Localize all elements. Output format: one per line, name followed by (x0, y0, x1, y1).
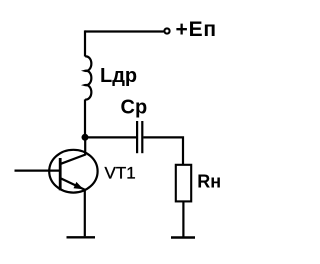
capacitor Cp plates (136, 121, 138, 153)
collector wire (vertical from junction + diagonal to base bar) (61, 137, 85, 164)
svg-text:Rн: Rн (197, 172, 221, 192)
transistor VT1 circle (49, 150, 97, 193)
wire from top corner down to inductor (84, 30, 86, 56)
base wire (15, 170, 60, 172)
emitter wire vertical to ground (84, 190, 86, 237)
ground (emitter) (67, 236, 96, 238)
emitter wire (diagonal from base bar) (61, 178, 85, 189)
wire junction to capacitor left plate (85, 136, 136, 138)
inductor Lдр (choke, 3 right-bulging arcs) (85, 56, 91, 99)
svg-text:+Eп: +Eп (176, 18, 217, 41)
svg-text:Cp: Cp (121, 96, 148, 118)
junction node (collector / L / C) (82, 134, 89, 141)
emitter arrowhead (74, 182, 84, 189)
supply terminal (open circle) (164, 28, 169, 33)
base bar (59, 158, 62, 190)
resistor Rн body (176, 165, 191, 202)
wire top horizontal to supply terminal (85, 30, 164, 32)
wire inductor to junction (84, 99, 86, 137)
svg-text:VT1: VT1 (105, 164, 136, 183)
wire resistor to ground (182, 201, 184, 236)
wire capacitor right plate to resistor top (143, 137, 183, 164)
ground (resistor) (171, 236, 195, 238)
svg-text:Lдр: Lдр (100, 65, 137, 87)
